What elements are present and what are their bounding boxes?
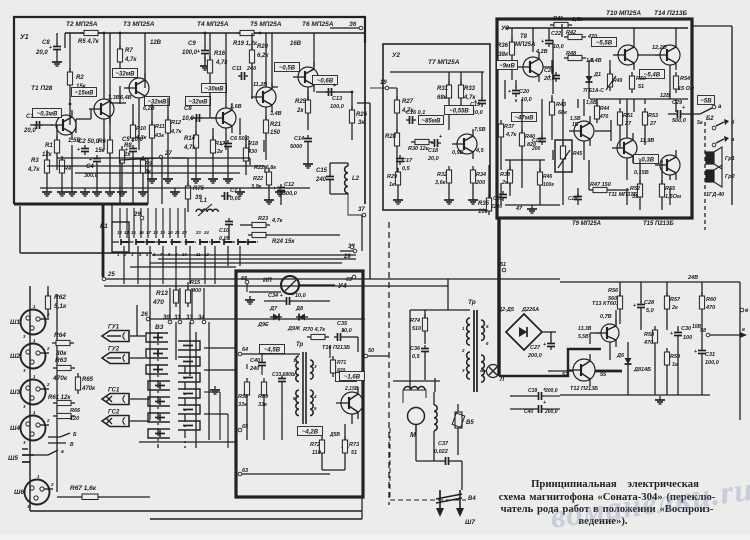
- transistor T2: [89, 94, 120, 124]
- resistor R31 68k: [437, 72, 452, 130]
- resistor R69 33k: [258, 378, 269, 440]
- resistor R10 4,3k: [130, 121, 147, 142]
- node 25 with wire: [102, 272, 365, 281]
- transistor T13 KT601A: [592, 301, 623, 347]
- stator winding bumps: [403, 387, 426, 404]
- resistor R26 3k: [349, 92, 367, 140]
- resistor R67 1,6k: [57, 485, 150, 500]
- T8 label: [515, 34, 535, 48]
- voltage callout -85mV: [419, 116, 444, 125]
- voltage callout -9mV: [497, 61, 518, 70]
- trimmer unit R45 box: [555, 140, 582, 172]
- resistor R27 4,7k: [394, 88, 414, 133]
- transistor T4: [211, 103, 242, 133]
- terminal b: [712, 119, 735, 130]
- capacitor C20 10,0: [508, 80, 532, 103]
- diode D8: [295, 306, 308, 321]
- mains plug Sh7 arrows: [436, 490, 475, 526]
- loudspeaker Gr2: [706, 165, 735, 187]
- terminal row 26 30 31 33 34: [140, 312, 365, 324]
- capacitor C18 20,0: [427, 134, 442, 162]
- dashed trunk line: [388, 222, 390, 505]
- resistor R16 4,7k: [207, 33, 228, 95]
- resistor R40 820: [519, 129, 536, 170]
- nodes 52 55: [562, 371, 620, 378]
- node 50: [364, 348, 374, 358]
- resistor R44 470: [594, 102, 609, 123]
- right edge power wire: [740, 282, 749, 420]
- resistor R3 4,7k: [27, 156, 52, 196]
- capacitor C33 6800: [272, 372, 294, 440]
- wire node 50 to power section: [368, 355, 389, 357]
- resistor R20 6,2k: [249, 33, 269, 88]
- U1 feedback wires: [47, 158, 265, 173]
- capacitor C17 0,5: [396, 155, 413, 172]
- capacitor C21 2200: [490, 191, 507, 210]
- capacitor C25: [568, 193, 582, 203]
- transistor T14: [652, 28, 680, 70]
- transistor T16: [336, 387, 363, 419]
- wire T2 collector to rail: [103, 33, 105, 99]
- indicator lamp L: [480, 365, 505, 384]
- dashed motor enclosure: [390, 428, 466, 500]
- ground stub U4 top-left: [245, 284, 255, 304]
- resistor R29 1k: [387, 168, 403, 204]
- node 58 output: [700, 327, 747, 338]
- node 27: [120, 151, 172, 160]
- transistor T15: [655, 150, 680, 180]
- cross inside GS2: [106, 418, 112, 424]
- resistor R50 51: [629, 72, 646, 93]
- node 64 entry: [238, 347, 300, 356]
- oscillator transformer Tr windings: [292, 342, 317, 424]
- node 28: [343, 245, 354, 260]
- transistor T10: [613, 28, 638, 70]
- capacitor C5 20,0: [122, 137, 144, 188]
- resistor R15 400: [185, 280, 201, 307]
- voltage callout -15mV: [72, 88, 97, 97]
- voltage callout -5V output: [698, 96, 715, 105]
- resistor R58 33k: [238, 378, 250, 440]
- resistor R51 27: [617, 108, 633, 140]
- capacitor C7 0,05: [221, 188, 242, 202]
- node 29: [140, 216, 144, 220]
- resistor R19 1,2k: [233, 30, 261, 47]
- U1 ground rail: [40, 188, 310, 196]
- voltage callout -4,2V: [298, 427, 323, 436]
- resistor R4: [57, 156, 71, 196]
- connector Sh3: [21, 380, 46, 405]
- resistor R42 470: [564, 30, 597, 40]
- callout -1,6V: [340, 372, 365, 381]
- resistor R74 510: [410, 310, 428, 344]
- node 68: [241, 276, 249, 284]
- B3 switch wafer brackets left column lower: [148, 381, 170, 438]
- switch pin numbers bottom: [117, 252, 209, 257]
- resistor R38 2k: [500, 166, 513, 187]
- resistor R61 12k: [48, 395, 75, 406]
- diode D6 D814B: [616, 342, 651, 395]
- resistor R11 43k: [147, 121, 165, 183]
- wire T3 collector: [144, 33, 146, 78]
- resistor R9 3k: [138, 156, 153, 196]
- wire to transformer: [410, 310, 470, 390]
- resistor R34 200: [468, 166, 486, 204]
- output capacitor C29 500,0: [668, 100, 703, 126]
- capacitor C39 200,0: [510, 400, 560, 415]
- right frame wire: [692, 26, 732, 205]
- ground rail U3: [505, 205, 560, 213]
- wires B3 to U4: [204, 348, 236, 448]
- resistor R14 4,7k: [183, 131, 201, 183]
- erase head GS2: [102, 416, 129, 427]
- capacitor C1 20,0 input: [23, 114, 50, 134]
- resistor R62 5,1k: [45, 286, 67, 318]
- thick power wiring: [499, 218, 622, 376]
- transistor T12 P213B: [568, 354, 598, 392]
- resistor R75 39: [185, 180, 204, 212]
- B3 switch wafer brackets right column: [178, 341, 200, 430]
- switch wafer row dash-dot line: [112, 241, 258, 243]
- resistor R65 470k: [75, 373, 96, 394]
- ground stub below B3: [214, 386, 216, 390]
- capacitor C14 5000: [290, 135, 313, 168]
- capacitor C13 100,0 output: [316, 83, 344, 110]
- transistor T5: [251, 82, 282, 117]
- resistor R32 3,6k: [435, 166, 454, 204]
- bus wires U1 to right units: [104, 215, 448, 286]
- resistor R46 100k: [537, 168, 554, 189]
- resistor R22 3,9k: [251, 168, 274, 204]
- capacitor C6 input T4: [182, 106, 212, 122]
- cross inside GS1: [106, 396, 112, 402]
- connector Sh2: [21, 344, 46, 369]
- watermark: [548, 472, 750, 536]
- motor phase winding coil: [434, 392, 437, 461]
- resistor R72 110: [310, 436, 325, 470]
- wires from U1 into switch B1: [120, 208, 185, 238]
- resistor R12 4,7k: [163, 116, 183, 183]
- voltage callout -5,5V: [592, 38, 617, 47]
- voltage callout -5,4V: [640, 70, 665, 79]
- electric motor M: [408, 408, 425, 440]
- resistor R55 1,5 Om: [659, 180, 681, 201]
- switch B4: [436, 490, 476, 503]
- capacitor C23 200: [531, 135, 546, 152]
- transistor T11: [612, 133, 654, 163]
- transistor T9: [569, 116, 594, 146]
- capacitor C8 20,0: [35, 33, 62, 66]
- capacitor C35 10,0: [334, 321, 358, 352]
- resistor R57 2k: [664, 282, 681, 330]
- power transformer Tr: [461, 299, 489, 392]
- label 1,6V 1,5V: [572, 100, 597, 128]
- interconnect trunk to U2: [352, 88, 385, 279]
- capacitor C34 10,0: [264, 292, 330, 305]
- node 51: [500, 262, 506, 272]
- resistor R63 470k: [52, 357, 75, 382]
- resistor R17 2k: [208, 136, 226, 183]
- voltage callout -0,6V: [313, 76, 338, 85]
- inductor L1 with arrow: [196, 198, 218, 216]
- resistor R54 15 Om: [673, 72, 694, 93]
- U1 signal path wires: [50, 87, 316, 204]
- node 69: [346, 275, 356, 283]
- transistor T3: [120, 73, 155, 112]
- capacitor C10 0,05: [219, 218, 233, 242]
- resistor R59 1k: [664, 348, 681, 395]
- resistor R64 30k: [52, 332, 74, 357]
- voltage callout -4,5V: [260, 345, 285, 354]
- motor area vertical wires: [435, 378, 462, 490]
- caption text: [499, 478, 716, 527]
- switch pin numbers top: [117, 230, 209, 235]
- resistor R53 27: [642, 108, 658, 140]
- capacitor C12 500,0: [273, 182, 297, 205]
- B3 right side vertical wires: [130, 305, 209, 448]
- node 37: [362, 213, 366, 217]
- resistor R41 1,5k: [550, 16, 584, 28]
- resistor R25 2k: [295, 90, 311, 130]
- node 38: [340, 244, 357, 253]
- switch block B3 dashed outline: [155, 324, 185, 448]
- resistor R7 4,7k: [117, 32, 137, 78]
- resistor R36 38k: [497, 28, 515, 80]
- capacitor C16 0,1: [406, 110, 425, 124]
- resistor R8 2k: [117, 143, 132, 196]
- capacitor C2 50,0: [67, 139, 100, 196]
- T10 T14 labels: [606, 10, 688, 17]
- voltage callout -0,3V: [634, 155, 659, 164]
- resistor R35 10k: [478, 165, 492, 215]
- resistor R33 4,7k: [458, 72, 476, 112]
- preamp unit U2 box: [383, 44, 490, 210]
- resistor R48 1,6: [564, 51, 595, 64]
- connector Sh5 jack fork: [8, 449, 64, 462]
- resistor R6 15k: [95, 136, 113, 188]
- resistor R30 12k: [408, 139, 433, 152]
- transistor T8: [518, 49, 548, 82]
- wire T6 collector to rail: [313, 33, 315, 62]
- capacitor C4 300,0: [84, 155, 102, 196]
- voltage callout -0,3mV: [33, 109, 62, 118]
- terminal node 36: [330, 22, 363, 30]
- resistor R2 15k with wire: [67, 33, 86, 110]
- capacitor C27 200,0: [527, 332, 556, 359]
- capacitor C36 0,5: [410, 345, 429, 380]
- amplifier unit U1 enclosure box: [14, 17, 365, 204]
- bottom return wire: [30, 497, 362, 519]
- terminal v: [712, 136, 735, 147]
- switch B2 dashed: [700, 104, 722, 230]
- capacitor C38 200,0: [510, 387, 560, 400]
- resistor R56 560: [608, 282, 623, 324]
- node 65: [238, 424, 249, 432]
- diode D7: [269, 306, 282, 321]
- switch block B1 outline: [100, 222, 129, 252]
- B3 bottom connection wire: [139, 441, 236, 443]
- U1 supply rail: [65, 32, 365, 34]
- bottom labels T9 T15: [572, 221, 674, 227]
- resistor R13 470: [152, 282, 179, 307]
- U1 stage wiring verticals: [47, 33, 314, 160]
- voltage callout -0,5V: [275, 63, 300, 72]
- erase head GS1: [102, 394, 129, 405]
- connector Sh4: [21, 416, 46, 441]
- level meter IP: [249, 276, 335, 294]
- diode D1 7GE1A-S: [583, 66, 604, 95]
- transistor type labels top row: [66, 21, 334, 28]
- resistor R58b 470: [643, 326, 658, 395]
- resistor R70 4,7k: [303, 327, 329, 340]
- U2 internal rail: [390, 71, 484, 73]
- resistor R37 4,7k: [498, 120, 517, 160]
- power bus 51: [448, 279, 560, 310]
- connector Sh1: [21, 310, 46, 335]
- wire T5 collector: [271, 33, 273, 70]
- arrow inside GU1: [107, 335, 121, 337]
- motor wires: [393, 381, 440, 432]
- capacitor C6 50,0: [220, 136, 249, 183]
- rectifier bridge D2-D5 D226A: [497, 307, 542, 350]
- resistor R1 12k: [42, 136, 60, 170]
- capacitor C40 240: [249, 358, 266, 372]
- capacitor C24 20,0: [543, 68, 560, 82]
- B3 switch wafer brackets left column: [146, 333, 168, 374]
- resistor R28: [385, 129, 400, 185]
- voltage callout -32mV at T3: [113, 69, 138, 78]
- universal head GU2: [102, 353, 129, 364]
- resistor R18 430: [243, 135, 259, 175]
- transistor T6: [290, 41, 318, 92]
- connector Sh6: [25, 480, 50, 505]
- capacitor C9 100,0: [182, 32, 210, 70]
- resistor R60 470: [699, 282, 716, 330]
- resistor R52 51: [630, 180, 643, 201]
- capacitor C22 10,0: [541, 28, 564, 50]
- U3 top rail: [505, 27, 688, 29]
- resistor R47 150: [589, 182, 611, 193]
- U3 wiring verticals: [501, 60, 676, 205]
- bus wires below U1 to node 28: [20, 206, 356, 267]
- resistor R73 51: [342, 436, 359, 470]
- transistor T1 P28: [31, 85, 76, 140]
- capacitor C28 5,0: [633, 282, 655, 330]
- resistor R43 68k: [549, 95, 568, 131]
- wires below switch row: [112, 204, 240, 319]
- mid rail 12V: [590, 93, 688, 99]
- capacitor C30 100: [670, 326, 692, 395]
- labels 13,3V 5,5V: [578, 326, 592, 340]
- transistor T7: [452, 127, 486, 159]
- resistor R24 15k: [248, 232, 340, 245]
- node 63: [238, 468, 330, 476]
- arrow inside GU2: [107, 357, 121, 359]
- universal head GU1: [102, 331, 129, 342]
- voltage callout -12V: [336, 373, 357, 382]
- fuse B5: [452, 404, 474, 440]
- resonant circuit C15 240 with coil L2: [315, 163, 360, 194]
- loudspeaker Gr1: [706, 147, 735, 169]
- switch contacts row: [121, 239, 256, 245]
- voltage callout -32mV right of T3: [145, 97, 170, 106]
- resistor R5 4,7k: [78, 30, 105, 45]
- capacitor C31 100,0: [694, 330, 719, 395]
- voltage callout -30mV: [202, 84, 227, 93]
- resistor R71 820: [330, 356, 346, 377]
- node 19 entry: [380, 80, 397, 90]
- capacitor C11 240: [232, 66, 256, 80]
- resistor R23 4,7k: [240, 216, 284, 228]
- capacitor C19 10,0: [470, 72, 486, 116]
- U4 internal wires: [247, 345, 352, 470]
- input wiring bus left side: [30, 284, 150, 511]
- switch contact by Sh4: [48, 432, 77, 448]
- resistor R66 120: [53, 408, 81, 422]
- wire from tank to node 37: [348, 194, 362, 215]
- power ground rail: [560, 395, 710, 404]
- wires T13 T12 region: [548, 310, 616, 371]
- oscillator unit U4 thick enclosure: [236, 271, 363, 497]
- thick wire left frame of switch area: [102, 205, 105, 277]
- U3 horizontal interconnects: [505, 24, 660, 160]
- wire output node: [340, 91, 353, 94]
- variable resistor R49: [606, 70, 622, 91]
- diode D5V: [329, 432, 349, 450]
- power amplifier unit U3 thick enclosure: [497, 19, 692, 218]
- resistor R21 150: [263, 110, 281, 160]
- wires U3 internal: [533, 28, 670, 210]
- capacitor C37 0,022: [416, 425, 462, 465]
- 24V rail: [560, 275, 740, 282]
- voltage callout -32mV left: [186, 97, 211, 106]
- voltage callout -47mV: [512, 113, 537, 122]
- voltage callout -0,55V: [445, 106, 474, 115]
